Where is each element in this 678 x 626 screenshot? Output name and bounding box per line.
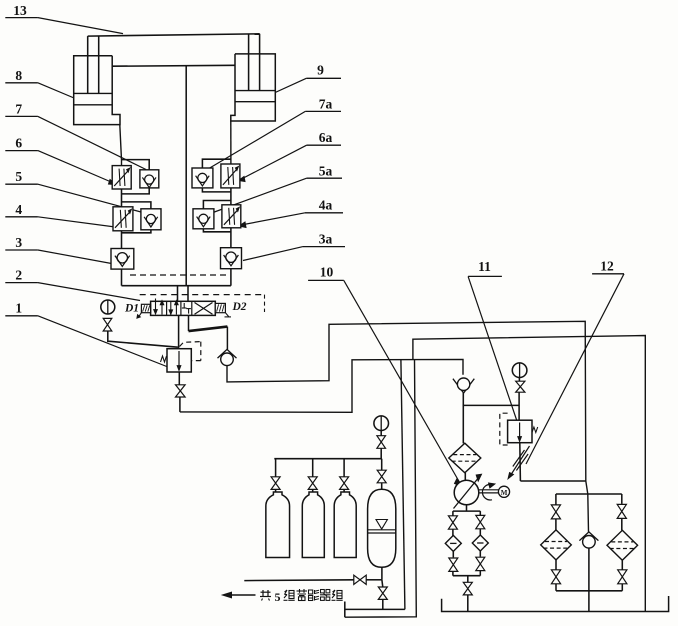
filter F4: [541, 530, 572, 560]
valve bottle3: [340, 477, 349, 483]
pipe cylinder8 to valves: [120, 125, 122, 166]
valve 4a throttle: [222, 205, 241, 228]
valve rfR top: [617, 504, 626, 511]
svg-text:3a: 3a: [319, 232, 333, 247]
pipe rf left stub: [555, 494, 557, 505]
accumulator: [368, 489, 396, 567]
svg-text:8: 8: [15, 68, 22, 83]
pipe acc drain: [382, 599, 384, 609]
svg-text:7a: 7a: [319, 97, 333, 112]
svg-text:12: 12: [600, 259, 614, 274]
valve branchR bottom: [476, 557, 485, 564]
valve under G1: [103, 318, 112, 324]
pipe acc neck: [381, 483, 383, 490]
svg-text:6a: 6a: [319, 130, 333, 145]
pipe pump merge: [452, 571, 454, 575]
pipe valve stubs: [177, 286, 179, 302]
valve 6 throttle: [112, 166, 131, 189]
svg-text:5: 5: [275, 590, 281, 604]
relief pilot dashes: [180, 342, 201, 347]
gauge G3: [512, 363, 527, 378]
pipe loop row1 right: [202, 159, 231, 168]
pump shaft: [479, 489, 499, 491]
rotation arrow: [482, 484, 492, 500]
pipe line B: [413, 336, 645, 612]
pipe acc outlet: [381, 567, 383, 580]
beam 13 crossbar: [88, 34, 260, 36]
motor M: [498, 486, 509, 497]
valve branchL top: [448, 516, 457, 523]
pipe V1 accumulator: [401, 360, 405, 610]
svg-text:2: 2: [15, 268, 22, 283]
svg-text:1: 1: [15, 301, 22, 316]
svg-text:3: 3: [15, 235, 22, 250]
cylinder 9 body: [231, 54, 275, 121]
filter F2: [445, 535, 461, 551]
filter F5: [607, 530, 638, 560]
svg-text:13: 13: [13, 3, 27, 18]
cylinder 9 rod: [248, 34, 250, 91]
svg-text:5: 5: [15, 169, 22, 184]
pipe rfR1: [621, 518, 623, 530]
tank bracket: [442, 596, 669, 612]
gauge G1: [101, 300, 115, 314]
pipe loop row2 left: [122, 202, 151, 209]
valve acc drain: [378, 587, 387, 593]
valve under G3: [516, 381, 525, 387]
valve 5 check: [141, 209, 161, 230]
throttle after relief2: [519, 443, 522, 481]
pipe bR2: [479, 551, 481, 557]
pipe rfL1: [555, 519, 557, 530]
valve acc top: [377, 470, 386, 476]
svg-text:5a: 5a: [319, 164, 333, 179]
pipe loop row1 left: [122, 160, 150, 170]
pipe pump split: [466, 505, 468, 511]
directional valve 2: [140, 294, 265, 296]
valve branchL bottom: [449, 558, 458, 565]
svg-text:9: 9: [317, 63, 324, 78]
valve rfL top: [551, 505, 560, 512]
dashed link line: [130, 274, 226, 276]
pipe gauge1 branch: [108, 331, 178, 347]
pipe bottle necks: [275, 489, 277, 492]
pipe to tank: [467, 595, 469, 612]
pipe CV1 drain / line A: [227, 321, 589, 532]
pipe bL1: [452, 529, 454, 536]
valve rfL bottom: [551, 570, 560, 577]
gas bottle 3: [334, 492, 356, 558]
pipe CV2 to filter: [462, 393, 464, 444]
svg-text:11: 11: [478, 259, 491, 274]
svg-text:D2: D2: [232, 301, 247, 313]
valve pump drain: [463, 582, 472, 588]
valve 7 check: [140, 170, 159, 188]
valve under G2: [377, 436, 386, 442]
pipe bR1: [479, 529, 481, 535]
relief valve 1: [167, 349, 191, 372]
pump P: [454, 480, 479, 505]
valve 5a check: [193, 209, 214, 229]
pipe loop row2 right: [203, 201, 231, 209]
arrow left: [229, 594, 256, 596]
gauge G2: [374, 416, 389, 431]
filter F3: [472, 535, 488, 551]
valve 7a check: [192, 168, 213, 188]
svg-text:10: 10: [320, 265, 334, 280]
valve under relief1: [176, 385, 186, 391]
svg-text:6: 6: [15, 136, 22, 151]
pipe rfL2: [555, 560, 557, 570]
caption gong-5-zu accumulators: [262, 590, 264, 597]
pipe G2 down: [380, 431, 382, 436]
check valve CV3: [579, 532, 598, 541]
svg-text:D1: D1: [124, 303, 139, 315]
pipe center column: [185, 66, 187, 286]
gas bottle 1: [266, 492, 290, 558]
pipe filter to pump: [464, 473, 466, 481]
svg-text:7: 7: [15, 102, 22, 117]
pipe branch to relief2: [463, 404, 519, 406]
pipe V2 return: [345, 360, 417, 618]
valve acc outlet: [354, 575, 360, 584]
pipe valve to CV1: [188, 315, 190, 331]
pipe cylinder9 to valves: [230, 121, 232, 164]
filter F1: [449, 443, 481, 473]
valve 6a throttle: [221, 164, 240, 188]
cylinder 8 rod: [87, 36, 89, 93]
valve 4 throttle: [113, 207, 133, 231]
pipe manifold: [122, 285, 231, 287]
pipe bottle stubs: [275, 459, 277, 477]
valve branchR top: [476, 515, 485, 522]
svg-text:M: M: [501, 489, 508, 497]
pipe rf bottom manifold: [555, 584, 557, 591]
pipe CV3 to tank: [588, 548, 590, 611]
pipe relief drain: [180, 359, 463, 412]
relief2 pilot dashes: [500, 413, 508, 445]
pipe valve to relief: [178, 315, 180, 348]
valve 3a check: [221, 248, 242, 269]
check valve CV2: [453, 379, 474, 393]
check valve CV1: [218, 349, 237, 358]
svg-text:4: 4: [15, 202, 22, 217]
valve 3 check: [111, 249, 134, 270]
relief valve 2: [508, 420, 532, 443]
pipe acc manifold: [274, 458, 381, 460]
pipe right main line: [230, 164, 232, 286]
pipe bL2: [452, 551, 454, 557]
valve bottle1: [271, 477, 280, 483]
pipe rf right stub: [621, 494, 623, 504]
gas bottle 2: [302, 492, 324, 558]
pipe rf feed: [556, 493, 622, 495]
svg-text:4a: 4a: [319, 198, 333, 213]
pipe relief2 out: [520, 480, 585, 482]
pipe G3 to relief2: [518, 377, 520, 381]
pipe acc stub: [381, 459, 383, 471]
valve rfR bottom: [618, 570, 627, 577]
pipe rfR2: [621, 560, 623, 570]
cylinder 8 body: [74, 56, 120, 125]
pipe left main line: [121, 166, 123, 286]
valve bottle2: [308, 477, 317, 483]
